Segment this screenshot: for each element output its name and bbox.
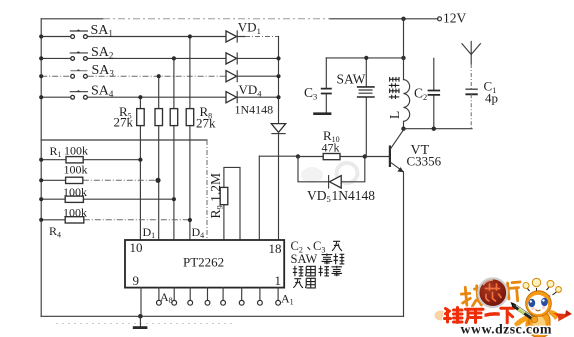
node 100k row junctions [39,158,192,223]
resistor R8 [186,109,194,126]
wire tank bottom row y128.7 [404,128,473,130]
svg-text:100k: 100k [64,144,88,158]
wire branch row y156 [259,155,298,157]
capacitor C1 [465,89,477,129]
svg-text:100k: 100k [63,185,87,199]
resistor R9 1.2M with loop to OSC pins [220,167,240,240]
resistor R6 [155,109,163,126]
svg-text:SAW: SAW [337,72,366,87]
wire diode output rail x278 [278,37,280,241]
diode VD2 [226,53,279,64]
svg-text:9: 9 [133,273,140,288]
note text C2 C3 SAW [291,239,345,288]
transistor VT collector [391,130,404,149]
node SAW top junction [364,56,368,60]
resistor R4 100k [41,219,65,221]
wire SA4 row [41,96,226,98]
svg-text:www.dzsc.com: www.dzsc.com [461,323,552,337]
mascot crown [523,278,561,301]
wire column x207 to IC [206,140,208,240]
inductor L (printed) [404,19,410,129]
diode VD4 [226,92,279,103]
word zhao-xin-pian [461,282,522,307]
wire SA3 row (faint) [41,75,226,77]
watermark [435,278,573,337]
switch SA3 [70,69,87,78]
label L yinshua (rotated) [387,77,402,119]
svg-text:47k: 47k [322,141,340,155]
wire column D3 (R7) [173,58,175,240]
capacitor C3 [321,58,332,113]
svg-text:27k: 27k [114,115,134,130]
resistor R2 100k [41,179,65,181]
resistor R7 [170,109,178,126]
wire A8-A1 pin stubs with open terminals [157,288,281,306]
svg-text:18: 18 [269,241,282,256]
wire column D1 (R5) [139,97,141,240]
node base row left junction [296,154,300,158]
node left rail junctions [39,34,43,99]
svg-text:SAW: SAW [291,252,318,266]
resistor R5 [137,109,145,126]
node diode rail junctions [276,56,280,99]
diode VD5 (pointing left) [329,176,342,188]
weiku-yixia red text [435,311,447,321]
diode VD3 [226,71,279,82]
svg-text:27k: 27k [196,115,216,130]
wire column D2 (R6) [158,76,160,240]
wire base row segment [298,156,389,158]
diode VD1 [226,31,279,42]
mascot body [514,310,572,337]
mascot head [526,291,552,317]
switch SA4 [70,90,87,99]
node 12V terminal circle [438,17,442,21]
svg-text:R9 1.2M: R9 1.2M [208,173,224,219]
wire SA2 row [41,57,226,59]
resistor R10 [323,154,340,160]
svg-text:100k: 100k [63,205,87,219]
wire pin9 ground stub [140,288,142,317]
transistor VT emitter with arrow [391,162,404,316]
wire bottom ground rail [41,315,403,317]
ground [139,316,141,326]
resistor R3 100k [41,198,174,200]
node ground junction [138,314,143,319]
svg-text:PT2262: PT2262 [183,254,224,269]
svg-text:L: L [387,111,402,119]
diode VD6 vertical on rail [271,124,285,134]
wire left rail [40,19,42,317]
scan artifact smudge [337,163,358,183]
antenna [462,42,480,89]
mascot eyes [528,299,535,307]
svg-text:100k: 100k [64,163,88,177]
node L top rail junctions [401,17,405,21]
node collector junction [401,127,405,131]
wire VD5 bypass loop [298,157,365,182]
svg-text:1N4148: 1N4148 [332,188,376,203]
svg-text:1N4148: 1N4148 [235,103,274,117]
svg-text:10: 10 [130,240,143,255]
wire oscillator top rail y58 [326,57,403,59]
wire column D4 (R8) [189,37,191,241]
node switch-to-resistor junctions [138,34,192,99]
wire column x259 to IC [258,156,260,240]
op-amp PT2262 IC box [125,240,284,288]
saw resonator SAW [357,58,375,157]
mascot dart red [553,313,571,322]
wire SA1 row [41,36,226,38]
node C2 bottom junction [432,127,436,131]
scan artifact dotted line above bottom rail [56,323,232,325]
capacitor C2 [428,58,441,128]
ground C3 bar [313,112,331,115]
wire Vcc feed row y140 [41,139,207,141]
transistor VT base bar [389,146,391,168]
svg-text:12V: 12V [443,11,467,26]
mascot pen [511,302,538,323]
node SAW-base junction [363,154,367,158]
switch SA2 [70,51,87,60]
magnifier circle with xin [478,278,507,307]
switch SA1 [70,29,87,38]
svg-text:1: 1 [275,273,282,288]
svg-text:4p: 4p [485,91,498,106]
resistor R1 100k [41,159,140,161]
svg-text:C3356: C3356 [407,153,442,168]
wire top +12V rail [41,18,103,20]
